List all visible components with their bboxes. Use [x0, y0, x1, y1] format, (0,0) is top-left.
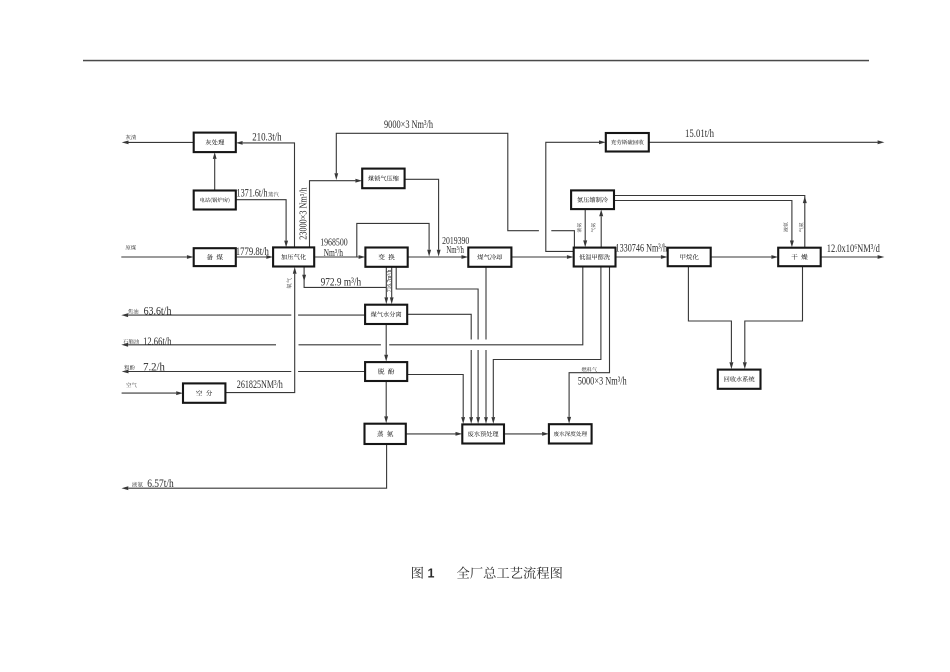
wire 煤锁气进压缩机: [310, 181, 356, 248]
wire 低温甲醇洗到甲烷化: [616, 256, 661, 258]
box 干燥: [778, 248, 821, 267]
wire 变换到煤气冷却: [408, 256, 462, 258]
label 石脑油: [123, 339, 128, 344]
wire 制冷下水平管: [614, 201, 792, 241]
wire 燃料气到深度处理: [569, 267, 609, 417]
wire 变换煤气水1: [385, 267, 387, 298]
box 变换: [365, 248, 407, 267]
svg-text:15.01t/h: 15.01t/h: [685, 128, 714, 140]
label 23000x3 rotated: [299, 187, 310, 239]
wire 变换煤气水2: [391, 267, 393, 298]
svg-text:210.3t/h: 210.3t/h: [252, 131, 282, 143]
wire 焦油出口段2: [128, 314, 291, 316]
svg-text:Nm³/h: Nm³/h: [324, 248, 344, 259]
box 克劳斯硫回收: [606, 133, 649, 152]
box 电站(锅炉房): [194, 191, 236, 210]
svg-text:1779.8t/h: 1779.8t/h: [236, 246, 269, 258]
wire 煤气水分离到废水预处理b: [470, 350, 472, 417]
wire 气化煤气水972: [304, 267, 386, 288]
box 煤锁气压缩: [362, 169, 404, 189]
label 空气: [126, 382, 131, 387]
flow quantity labels: [143, 119, 880, 490]
wire 脱酚到废水预处理: [407, 375, 463, 418]
wire 液氨出口: [128, 444, 386, 488]
wire 焦油出口段1: [298, 314, 365, 316]
wire 石脑油出口段1: [389, 267, 583, 345]
wire 备煤到加压气化: [236, 256, 266, 258]
label 氧气 rotated: [286, 278, 291, 289]
label 焦油: [128, 309, 133, 314]
wire 电站蒸汽到气化: [236, 200, 286, 241]
label 原煤: [125, 245, 130, 250]
wire 电站到灰处理: [214, 159, 216, 191]
svg-text:Nm³/h: Nm³/h: [446, 245, 464, 256]
svg-text:716.7m³/h: 716.7m³/h: [387, 270, 393, 292]
wire 粗酚出口段2: [129, 371, 292, 373]
wire 甲醇洗酸气到硫回收: [546, 142, 599, 251]
label 蒸汽: [268, 192, 273, 197]
label 716.7 rotated: [387, 270, 393, 292]
svg-text:23000×3 Nm³/h: 23000×3 Nm³/h: [299, 187, 310, 239]
caption 全厂总工艺流程图: [457, 567, 470, 579]
wire 空气进空分: [122, 392, 177, 394]
wire 膨胀气9000段2: [336, 133, 539, 230]
wire 石脑油出口段3: [128, 344, 276, 346]
wire 液氨制冷到甲醇洗: [584, 209, 586, 240]
wire 石脑油出口段2: [299, 344, 381, 346]
box 脱酚: [365, 362, 407, 381]
svg-text:63.6t/h: 63.6t/h: [144, 306, 172, 318]
wire 气氨返回制冷: [600, 216, 602, 247]
svg-text:5000×3 Nm³/h: 5000×3 Nm³/h: [578, 376, 627, 388]
box 灰处理: [194, 133, 236, 153]
wire 硫回收产品出口: [649, 141, 878, 143]
wire 加压气化到变换: [314, 256, 358, 258]
box 煤气水分离: [365, 305, 407, 324]
wire 蒸氨到废水预处理: [406, 433, 456, 435]
wire 变换冷凝液到废水预处理: [396, 267, 478, 340]
caption 图: [412, 567, 423, 579]
wire 煤气冷却凝液段1: [485, 267, 487, 340]
box 氨压缩制冷: [571, 190, 614, 209]
box 备煤: [194, 248, 236, 266]
svg-text:972.9 m³/h: 972.9 m³/h: [321, 277, 362, 289]
box 甲烷化: [668, 248, 711, 267]
wire 煤气水分离到废水预处理: [407, 314, 471, 339]
svg-text:9000×3 Nm³/h: 9000×3 Nm³/h: [384, 119, 433, 131]
label 液氨 rotated 甲醇洗: [577, 223, 582, 232]
svg-text:7.2/h: 7.2/h: [143, 361, 165, 373]
label 燃料气: [582, 367, 587, 372]
wire 制冷上水平管: [614, 196, 805, 248]
label 粗酚: [124, 365, 129, 370]
wire 干燥凝液到回收水: [745, 266, 803, 362]
box 蒸氨: [365, 424, 406, 444]
wire 氧气到气化: [225, 274, 294, 393]
svg-text:6.57t/h: 6.57t/h: [147, 478, 174, 490]
label 液氨: [132, 482, 137, 487]
svg-text:12.66t/h: 12.66t/h: [143, 336, 171, 348]
wire 脱酚到蒸氨: [385, 381, 387, 416]
wire 变换冷凝液到废水预处理b: [477, 350, 479, 417]
svg-text:12.0x10⁶NM³/d: 12.0x10⁶NM³/d: [827, 243, 880, 255]
label 气氨 rotated 甲醇洗: [591, 223, 596, 232]
wire 变换旁路: [357, 223, 429, 257]
box 煤气冷却: [468, 248, 511, 267]
wire 压缩机出口: [405, 179, 439, 249]
svg-text:1: 1: [428, 566, 435, 580]
wire 煤气水分离到脱酚: [385, 324, 387, 355]
svg-text:1330746 Nm³/h: 1330746 Nm³/h: [616, 242, 668, 254]
label 液氨 rotated 干燥: [783, 222, 788, 231]
wire 粗酚出口段1: [298, 371, 365, 373]
box 回收水系统: [718, 370, 761, 389]
box 低温甲醇洗: [574, 248, 616, 267]
wire 甲烷化凝液到回收水: [688, 266, 731, 362]
wire 灰渣出口: [129, 141, 194, 143]
wire 煤气冷却到低温甲醇洗: [511, 256, 567, 258]
label 灰渣: [126, 135, 131, 140]
label 气氨 rotated 干燥: [799, 223, 804, 232]
wire 甲醇洗废水到预处理: [493, 267, 601, 418]
page top rule: [83, 60, 869, 62]
wire 膨胀气9000段1: [551, 231, 574, 248]
wire 废水预处理到深度处理: [504, 433, 542, 435]
box 加压气化: [273, 247, 314, 266]
svg-text:261825NM³/h: 261825NM³/h: [237, 379, 283, 391]
wire 干燥产品气出口: [821, 256, 878, 258]
box 废水预处理: [462, 424, 504, 443]
wire 甲烷化到干燥: [711, 256, 772, 258]
svg-text:1371.6t/h: 1371.6t/h: [237, 188, 268, 200]
wire 原煤进备煤: [121, 256, 187, 258]
box 废水深度处理: [549, 424, 592, 443]
wire 煤气冷却凝液段2: [485, 350, 487, 417]
wire 气化灰到灰处理: [243, 143, 295, 248]
box 空分: [183, 383, 225, 402]
